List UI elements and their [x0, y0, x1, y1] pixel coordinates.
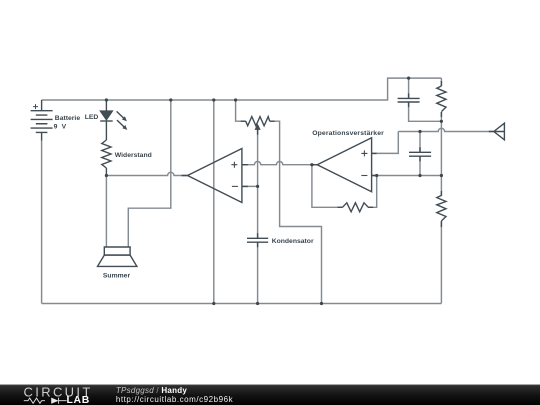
wire output line to antenna with hop: [398, 128, 494, 131]
resistor R3 zigzag: [437, 86, 446, 112]
wire bottom rail: [42, 303, 442, 305]
capacitor C1 plates: [398, 98, 420, 102]
svg-text:V: V: [62, 123, 67, 130]
wire potentiometer right branch down to bottom rail: [270, 121, 322, 303]
node dot inverting net right: [440, 174, 443, 177]
node dot bottom rail pot branch: [320, 302, 323, 305]
resistor Widerstand zigzag: [102, 140, 111, 168]
svg-text:LAB: LAB: [67, 395, 90, 405]
LED D1 emission arrow 1 head: [122, 116, 127, 121]
wire top rail: [42, 78, 442, 100]
op-amp U1 plus glyph: [231, 162, 237, 168]
op-amp U2 plus glyph: [361, 150, 367, 156]
wire R3 top lead: [440, 78, 442, 86]
wire Widerstand node N1 down to speaker: [105, 176, 107, 248]
wire C2 bottom lead: [419, 156, 421, 175]
node dot RC bottom: [440, 120, 443, 123]
speaker Summer cone: [98, 255, 137, 266]
wire Kondensator top lead: [257, 186, 259, 238]
wire U2 noninverting input riser: [372, 132, 399, 154]
footer bar: [0, 385, 540, 405]
node dot C2 bottom: [418, 174, 421, 177]
node dot bottom rail Kondensator: [256, 302, 259, 305]
resistor Widerstand bottom pin: [105, 168, 107, 176]
wire battery negative to bottom rail: [41, 140, 43, 304]
resistor R3 pins: [440, 81, 442, 117]
wire Kondensator bottom lead: [257, 242, 259, 303]
node dot N1: [105, 174, 108, 177]
potentiometer R2 wiper arrow head: [255, 124, 261, 130]
capacitor Kondensator plates: [247, 238, 268, 242]
resistor R5 pins: [440, 191, 442, 227]
LED D1 anode pin: [105, 100, 107, 111]
node dot C2 top: [418, 130, 421, 133]
LED D1 emission arrow 2 shaft: [117, 120, 124, 127]
antenna symbol: [489, 123, 505, 140]
wire U2 feedback loop left and bottom: [312, 165, 343, 208]
wire potentiometer left branch: [236, 100, 246, 121]
node dot C1 top: [407, 77, 410, 80]
op-amp U1 minus glyph: [232, 185, 238, 187]
resistor R4 feedback zigzag: [343, 203, 369, 212]
node dot U2 output junction: [310, 163, 313, 166]
node dot bottom rail mid vertical: [212, 302, 215, 305]
logo diode triangle: [51, 398, 58, 404]
LED D1 emission arrow 2 head: [122, 125, 127, 130]
battery V1 plates: [31, 111, 53, 133]
wire potentiometer wiper stem: [257, 129, 259, 187]
battery V1 negative pin: [41, 132, 43, 140]
svg-text:Widerstand: Widerstand: [115, 152, 152, 159]
wire right riser from bottom rail to R5: [440, 222, 442, 304]
LED D1 emission arrow 1 shaft: [117, 111, 124, 118]
wire vertical mid rail: [213, 100, 215, 304]
op-amp U1 pin stubs: [182, 165, 248, 187]
wire inverting net to right vertical: [377, 175, 442, 177]
svg-text:http://circuitlab.com/c92b96k: http://circuitlab.com/c92b96k: [116, 395, 234, 404]
svg-text:TPsdggsd / Handy: TPsdggsd / Handy: [116, 386, 187, 395]
wire speaker right terminal to top rail: [128, 100, 171, 247]
capacitor C1 pins: [408, 93, 410, 107]
wire R3 bottom lead: [440, 112, 442, 121]
node dot U2 inverting junction: [375, 174, 378, 177]
speaker Summer body: [104, 247, 130, 255]
wire C2 top lead: [419, 132, 421, 153]
svg-text:Summer: Summer: [103, 272, 131, 279]
potentiometer R2 pins: [241, 121, 275, 135]
node dot top rail mid vertical: [212, 98, 215, 101]
capacitor C2 pins: [419, 147, 421, 161]
battery V1 plus sign: [33, 104, 38, 109]
wire op-amp1 output to node N1 with hop: [106, 172, 187, 175]
svg-text:Operationsverstärker: Operationsverstärker: [312, 130, 384, 137]
capacitor Kondensator pins: [257, 233, 259, 247]
wire feedback resistor to inverting input: [368, 176, 377, 208]
capacitor C2 plates: [409, 152, 431, 156]
op-amp U1 triangle: [188, 149, 242, 203]
node dot U1 inverting junction: [256, 185, 259, 188]
LED D1 cathode pin to resistor: [105, 121, 107, 140]
node dot top rail speaker branch: [169, 98, 172, 101]
battery V1 positive lead: [41, 100, 43, 111]
node dot top rail potentiometer branch: [234, 98, 237, 101]
LED D1 cathode bar: [100, 120, 113, 122]
svg-text:LED: LED: [85, 114, 99, 121]
potentiometer R2 zigzag: [246, 117, 270, 126]
svg-text:Batterie: Batterie: [55, 115, 81, 122]
svg-text:9: 9: [54, 123, 58, 130]
op-amp U2 triangle: [317, 138, 371, 192]
op-amp U2 minus glyph: [361, 175, 367, 177]
op-amp U2 pin stubs: [312, 153, 377, 175]
LED D1 triangle: [101, 111, 113, 120]
resistor R5 zigzag: [437, 195, 446, 221]
node dot top rail LED branch: [105, 98, 108, 101]
wire U1 inverting input stub: [242, 185, 258, 187]
wire C1 bottom lead: [409, 102, 442, 121]
logo resistor zigzag: [24, 398, 67, 404]
wire noninverting net U1 to U2 output with hops: [242, 162, 317, 165]
svg-text:Kondensator: Kondensator: [272, 238, 314, 245]
wire U2 inverting input stub: [372, 175, 377, 177]
wire C1 top lead: [408, 78, 410, 98]
resistor R4 pins: [338, 206, 374, 208]
wire right vertical through antenna line: [440, 121, 442, 196]
